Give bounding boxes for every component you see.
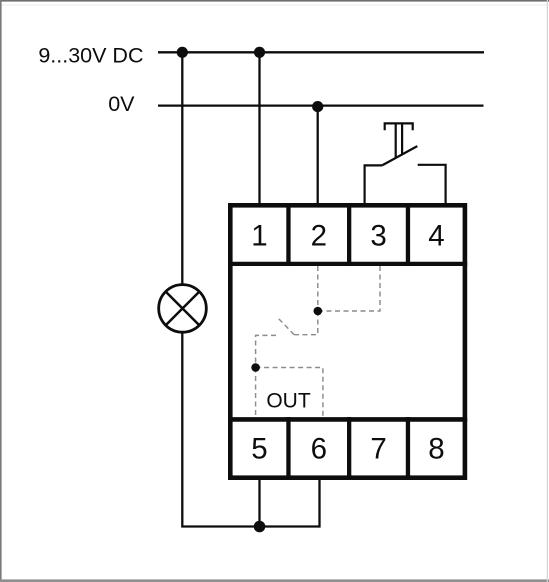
wire: +V supply line (9...30V DC rail) [158, 51, 484, 53]
svg-text:0V: 0V [108, 92, 135, 116]
right fixed contact + wire to terminal 4 [418, 165, 446, 205]
divider terminals 3/4 [406, 203, 410, 266]
svg-text:2: 2 [311, 219, 327, 252]
node B (internal) [251, 363, 260, 372]
movable contact lever [382, 146, 417, 165]
lamp HL1 (load) [159, 285, 207, 333]
node: bottom junction (lamp return) [254, 521, 266, 533]
divider terminals 2/3 [347, 203, 351, 266]
wire: +V rail to terminal 1 [258, 52, 260, 205]
wire: terminal 5 to bottom junction [258, 480, 260, 527]
node: junction +V rail / lamp branch [177, 47, 188, 58]
dashed: node A to contact pivot [294, 311, 318, 335]
node: junction +V rail / terminal 1 branch [254, 47, 265, 58]
svg-text:OUT: OUT [266, 390, 311, 413]
bottom terminal row top edge [228, 417, 467, 422]
dashed: relay contact lever (open) [278, 318, 294, 335]
actuator stem left [395, 123, 397, 157]
node A (internal) [314, 307, 323, 316]
svg-text:8: 8 [428, 433, 444, 466]
wire: 0V rail to terminal 2 [317, 107, 319, 205]
dashed: node B to terminal 6 [256, 368, 323, 419]
svg-text:6: 6 [311, 433, 327, 466]
divider terminals 7/8 [406, 417, 410, 480]
dashed: terminal 3 to node A [318, 266, 380, 311]
push button S1 (momentary NO) [365, 123, 446, 205]
wire: lamp to bottom bus to terminal 6 [182, 332, 319, 527]
svg-text:3: 3 [370, 219, 386, 252]
dashed: node B to terminal 5 [255, 368, 257, 419]
relay module U1 (DIN enclosure) [230, 205, 465, 477]
wire: +V rail to lamp drop [181, 52, 183, 285]
svg-text:7: 7 [370, 433, 386, 466]
svg-text:9...30V DC: 9...30V DC [38, 43, 143, 67]
button cap [385, 123, 413, 130]
left fixed contact + wire to terminal 3 [365, 165, 383, 205]
top terminal row bottom edge [228, 262, 467, 266]
dashed: fixed contact to node B [256, 335, 276, 367]
divider terminals 1/2 [286, 203, 290, 266]
page frame [0, 4, 549, 7]
divider terminals 5/6 [286, 417, 290, 480]
svg-text:5: 5 [251, 433, 267, 466]
svg-text:4: 4 [428, 219, 444, 252]
dashed: terminal 2 to node A [317, 266, 319, 311]
divider terminals 6/7 [347, 417, 351, 480]
node: junction 0V rail / terminal 2 branch [312, 101, 323, 112]
wire: 0V rail [158, 104, 484, 106]
svg-text:1: 1 [251, 219, 267, 252]
internal relay contact (dashed) [256, 266, 380, 419]
actuator stem right [401, 123, 403, 154]
